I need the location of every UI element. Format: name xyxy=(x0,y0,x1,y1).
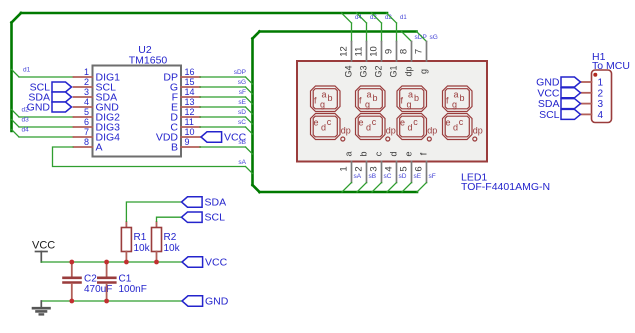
node sD label bottom xyxy=(399,173,407,180)
svg-text:G3: G3 xyxy=(359,65,369,77)
svg-text:d1: d1 xyxy=(400,15,407,21)
LED1 bottom pin 2 (b) xyxy=(354,151,369,182)
LED1 bottom pin 1 (a) xyxy=(339,151,354,182)
junction at 71.8,262 xyxy=(69,260,74,265)
resistor R1 10k xyxy=(121,222,150,262)
node sB label xyxy=(238,139,246,146)
svg-text:R1: R1 xyxy=(134,232,147,243)
U2 pin 2 SCL xyxy=(74,77,117,94)
U2 pin 1 DIG1 xyxy=(74,67,121,84)
svg-text:TOF-F4401AMG-N: TOF-F4401AMG-N xyxy=(461,181,550,193)
net port SDA at U2 xyxy=(28,92,71,104)
svg-text:10k: 10k xyxy=(164,243,181,254)
svg-text:11: 11 xyxy=(185,117,194,127)
U2 pin 10 VDD xyxy=(156,127,200,144)
svg-text:C2: C2 xyxy=(84,274,97,285)
svg-text:VCC: VCC xyxy=(32,240,55,252)
U2 pin 16 DP xyxy=(163,67,200,84)
svg-text:100nF: 100nF xyxy=(119,284,147,295)
U2 pin 7 DIG4 xyxy=(74,127,121,144)
net port SDA xyxy=(182,197,227,209)
wire sF to LED1 pin 6 xyxy=(417,183,427,193)
op-amp U2 body TM1650 xyxy=(93,44,182,157)
node sE label bottom xyxy=(414,173,422,180)
wire sC from U2 xyxy=(200,127,253,134)
svg-text:SCL: SCL xyxy=(205,212,226,224)
node d2 label top xyxy=(385,15,392,21)
svg-text:g: g xyxy=(320,100,325,110)
svg-text:d: d xyxy=(453,123,458,133)
svg-text:A: A xyxy=(96,142,103,154)
svg-text:B: B xyxy=(171,142,178,154)
svg-text:9: 9 xyxy=(384,49,395,54)
wire SCL from R2 xyxy=(157,217,182,222)
bus SEG (upper horizontal) xyxy=(260,30,417,33)
node d4 label xyxy=(22,127,30,134)
U2 pin 15 G xyxy=(170,77,200,94)
wire VCC rail xyxy=(41,261,182,263)
svg-text:c: c xyxy=(327,117,332,127)
LED1 bottom pin 3 (c) xyxy=(369,151,384,182)
H1 pin 2 xyxy=(581,88,604,99)
LED1 bottom pin 5 (e) xyxy=(399,151,414,182)
svg-text:470uF: 470uF xyxy=(84,284,112,295)
svg-text:sB: sB xyxy=(369,173,377,180)
capacitor C1 100nF xyxy=(98,262,147,301)
net port GND at H1 xyxy=(536,77,580,89)
node sD label xyxy=(238,109,246,116)
svg-text:g: g xyxy=(406,100,411,110)
LED1 bottom pin 4 (d) xyxy=(384,151,399,182)
LED1 top pin 12 (G4) xyxy=(339,42,354,78)
svg-text:a: a xyxy=(321,90,326,100)
svg-text:sD: sD xyxy=(399,173,407,180)
svg-text:12: 12 xyxy=(185,107,195,117)
bus DIG (left vertical) xyxy=(12,13,22,131)
junction at 156.5,262 xyxy=(154,260,159,265)
svg-text:11: 11 xyxy=(354,47,365,57)
wire GND rail xyxy=(41,300,182,302)
svg-text:c: c xyxy=(374,151,384,156)
U2 pin 13 E xyxy=(171,97,200,114)
LED1 top pin 9 (G1) xyxy=(384,42,399,78)
svg-text:a: a xyxy=(344,151,354,156)
svg-text:sE: sE xyxy=(414,173,422,180)
svg-text:d3: d3 xyxy=(22,117,30,124)
node sF label bottom xyxy=(429,173,436,180)
LED1 top pin 10 (G2) xyxy=(369,42,384,78)
connector H1 body xyxy=(592,51,630,123)
node d1 label xyxy=(23,67,31,74)
wire d1 to U2 xyxy=(12,70,74,78)
wire sC to LED1 pin 3 xyxy=(372,183,382,193)
node sG label top xyxy=(430,34,438,41)
capacitor C2 470uF xyxy=(64,262,113,301)
svg-text:12: 12 xyxy=(339,46,350,57)
svg-text:2: 2 xyxy=(598,88,604,99)
U2 pin 12 D xyxy=(170,107,200,124)
svg-text:sD: sD xyxy=(238,109,246,116)
node d3 label top xyxy=(370,15,377,21)
wire d3 to LED1 xyxy=(357,13,367,42)
svg-text:7: 7 xyxy=(84,127,89,137)
svg-text:d: d xyxy=(366,123,371,133)
svg-text:10k: 10k xyxy=(134,243,151,254)
svg-text:sC: sC xyxy=(238,119,246,126)
svg-text:8: 8 xyxy=(399,49,410,54)
wire d4 to U2 xyxy=(12,130,74,138)
wire d3 to U2 xyxy=(12,120,74,128)
power VCC symbol xyxy=(32,240,55,263)
LED1 bottom pin 6 (f) xyxy=(414,152,429,182)
svg-text:b: b xyxy=(459,93,464,103)
svg-text:2: 2 xyxy=(84,77,89,87)
wire d2 to LED1 xyxy=(372,13,382,42)
U2 pin 6 DIG3 xyxy=(74,117,121,134)
net port SCL at H1 xyxy=(539,109,580,121)
svg-text:b: b xyxy=(327,93,332,103)
net port VCC rail xyxy=(182,257,228,269)
svg-text:R2: R2 xyxy=(164,232,177,243)
node sC label bottom xyxy=(384,173,392,180)
svg-text:b: b xyxy=(372,93,377,103)
svg-text:G4: G4 xyxy=(344,65,354,77)
wire sA from U2 pin 8 xyxy=(53,147,253,174)
svg-text:7: 7 xyxy=(414,49,425,54)
svg-text:e: e xyxy=(400,118,405,128)
wire sB to LED1 pin 2 xyxy=(357,183,367,193)
node sB label bottom xyxy=(369,173,377,180)
junction at 71.8,301 xyxy=(69,299,74,304)
U2 pin 5 DIG2 xyxy=(74,107,121,124)
svg-text:13: 13 xyxy=(185,97,195,107)
node d2 label xyxy=(22,107,30,114)
wire d4 to LED1 xyxy=(342,13,352,42)
svg-text:sF: sF xyxy=(429,173,436,180)
node sC label xyxy=(238,119,246,126)
svg-text:dp: dp xyxy=(473,126,483,136)
svg-text:14: 14 xyxy=(185,87,195,97)
svg-text:d: d xyxy=(407,123,412,133)
svg-text:4: 4 xyxy=(598,110,604,121)
svg-text:9: 9 xyxy=(185,137,190,147)
wire sF from U2 xyxy=(200,97,253,104)
node sE label xyxy=(238,99,246,106)
svg-text:sF: sF xyxy=(239,89,246,96)
net port GND rail xyxy=(182,296,229,308)
wire sG from U2 xyxy=(200,87,253,94)
junction at 126.4,262 xyxy=(124,260,129,265)
svg-text:sE: sE xyxy=(238,99,246,106)
svg-text:g: g xyxy=(452,100,457,110)
svg-text:sA: sA xyxy=(238,159,246,166)
svg-text:2: 2 xyxy=(354,166,365,171)
node sF label xyxy=(239,89,246,96)
node d4 label top xyxy=(355,15,362,21)
LED1 value label xyxy=(461,172,550,194)
svg-text:SCL: SCL xyxy=(539,109,560,121)
H1 pin 3 xyxy=(581,99,604,110)
svg-text:3: 3 xyxy=(369,166,380,171)
svg-text:10: 10 xyxy=(369,46,380,57)
U2 pin 8 A xyxy=(74,137,103,154)
svg-text:To MCU: To MCU xyxy=(592,60,630,72)
svg-text:a: a xyxy=(366,90,371,100)
junction at 106.6,301 xyxy=(104,299,109,304)
ground symbol xyxy=(33,301,50,314)
svg-text:4: 4 xyxy=(84,97,89,107)
node sA label xyxy=(238,159,246,166)
svg-text:5: 5 xyxy=(84,107,89,117)
svg-text:dp: dp xyxy=(427,126,437,136)
net port SCL xyxy=(182,212,226,224)
svg-text:4: 4 xyxy=(384,166,395,171)
node sDP label xyxy=(234,69,246,76)
net port VCC at H1 xyxy=(537,87,580,99)
svg-text:6: 6 xyxy=(414,166,425,171)
wire sD from U2 xyxy=(200,117,253,124)
svg-text:1: 1 xyxy=(598,78,604,89)
svg-text:sA: sA xyxy=(354,173,362,180)
svg-text:sC: sC xyxy=(384,173,392,180)
svg-text:GND: GND xyxy=(27,102,51,114)
svg-text:c: c xyxy=(459,117,464,127)
LED1 top pin 8 (dp) xyxy=(399,42,414,77)
svg-text:1: 1 xyxy=(84,67,89,77)
net port SDA at H1 xyxy=(538,98,581,110)
svg-text:dp: dp xyxy=(341,126,351,136)
node sA label bottom xyxy=(354,173,362,180)
junction at 106.6,262 xyxy=(104,260,109,265)
U2 pin 14 F xyxy=(172,87,200,104)
wire sA to LED1 pin 1 xyxy=(342,183,352,193)
svg-text:dp: dp xyxy=(386,126,396,136)
U2 pin 4 GND xyxy=(74,97,120,114)
node sG label xyxy=(238,79,246,86)
svg-text:6: 6 xyxy=(84,117,89,127)
svg-text:16: 16 xyxy=(185,67,195,77)
bus DIG (top horizontal) xyxy=(21,12,387,15)
wire sB from U2 xyxy=(200,147,253,154)
svg-text:GND: GND xyxy=(205,296,229,308)
svg-text:3: 3 xyxy=(598,99,604,110)
U2 pin 9 B xyxy=(171,137,200,154)
LED1 digit 2 xyxy=(356,86,396,141)
svg-text:sB: sB xyxy=(238,139,246,146)
LED1 top pin 11 (G3) xyxy=(354,42,369,78)
svg-text:5: 5 xyxy=(399,166,410,171)
wire d2 to U2 xyxy=(12,110,74,118)
svg-text:e: e xyxy=(445,118,450,128)
svg-text:g: g xyxy=(419,69,429,74)
H1 pin 4 xyxy=(581,110,604,121)
svg-text:dp: dp xyxy=(404,66,414,76)
svg-text:d: d xyxy=(321,123,326,133)
wire d1 to LED1 xyxy=(387,13,397,42)
svg-text:sG: sG xyxy=(430,34,438,41)
LED1 top pin 7 (g) xyxy=(414,42,429,75)
svg-text:G1: G1 xyxy=(389,65,399,77)
net port SCL at U2 xyxy=(30,82,72,94)
svg-text:a: a xyxy=(408,90,413,100)
svg-text:sG: sG xyxy=(238,79,246,86)
svg-text:sDP: sDP xyxy=(234,69,246,76)
svg-text:e: e xyxy=(404,151,414,156)
svg-text:d4: d4 xyxy=(22,127,30,134)
resistor R2 10k xyxy=(152,222,181,262)
svg-text:e: e xyxy=(313,118,318,128)
svg-text:d1: d1 xyxy=(23,67,31,74)
svg-text:1: 1 xyxy=(339,166,350,171)
svg-text:c: c xyxy=(372,117,377,127)
svg-text:b: b xyxy=(359,151,369,156)
U2 pin 11 C xyxy=(170,117,200,134)
node d3 label xyxy=(22,117,30,124)
net port VCC at U2 pin 10 xyxy=(201,132,247,144)
net port GND at U2 xyxy=(27,102,72,114)
svg-text:c: c xyxy=(413,117,418,127)
wire SDA from R1 xyxy=(126,202,181,222)
svg-text:a: a xyxy=(453,90,458,100)
U2 pin 3 SDA xyxy=(74,87,118,104)
wire sE to LED1 pin 5 xyxy=(402,183,412,193)
svg-text:C1: C1 xyxy=(119,274,132,285)
wire sG to LED1 xyxy=(417,32,427,42)
wire sD to LED1 pin 4 xyxy=(387,183,397,193)
LED1 digit 3 xyxy=(397,86,437,141)
svg-text:TM1650: TM1650 xyxy=(129,55,168,67)
LED display LED1 body xyxy=(297,61,487,162)
svg-text:g: g xyxy=(365,100,370,110)
svg-text:8: 8 xyxy=(84,137,89,147)
svg-text:d: d xyxy=(389,151,399,156)
bus SEG (right vertical) xyxy=(253,32,260,193)
bus SEG (lower horizontal) xyxy=(260,191,418,194)
node d1 label top xyxy=(400,15,407,21)
node sDP label top xyxy=(415,34,427,41)
LED1 digit 4 xyxy=(443,86,483,141)
svg-text:3: 3 xyxy=(84,87,89,97)
svg-text:G2: G2 xyxy=(374,65,384,77)
wire sDP from U2 xyxy=(200,77,253,84)
svg-text:15: 15 xyxy=(185,77,195,87)
svg-text:SDA: SDA xyxy=(205,197,227,209)
H1 pin 1 xyxy=(581,78,604,89)
svg-text:e: e xyxy=(358,118,363,128)
svg-text:VCC: VCC xyxy=(205,257,228,269)
svg-text:10: 10 xyxy=(185,127,195,137)
wire sDP to LED1 xyxy=(402,32,412,42)
wire sE from U2 xyxy=(200,107,253,114)
LED1 digit 1 xyxy=(311,86,351,141)
svg-text:b: b xyxy=(414,93,419,103)
